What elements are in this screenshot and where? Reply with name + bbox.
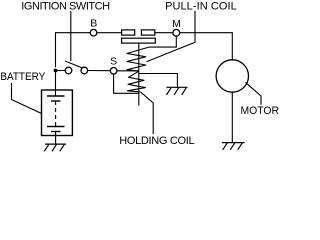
wire motor to ground <box>231 92 233 142</box>
svg-text:PULL-IN COIL: PULL-IN COIL <box>165 1 237 13</box>
ignition switch contact left <box>65 67 72 74</box>
pull-in coil L1 <box>127 47 149 71</box>
leader line battery <box>12 83 42 114</box>
wire terminal M to pull-in coil <box>149 36 176 47</box>
svg-text:MOTOR: MOTOR <box>241 105 280 117</box>
fixed contact 2 <box>141 30 154 35</box>
battery cell plate short top <box>51 100 61 102</box>
battery cell plate long bottom <box>47 126 65 128</box>
wire terminal S to coil junction <box>117 70 139 72</box>
wire battery to ground <box>55 132 57 145</box>
terminal M <box>173 29 180 36</box>
plunger rod <box>138 43 140 106</box>
leader line motor <box>246 82 262 104</box>
terminal B <box>90 29 97 36</box>
node junction battery/switch <box>54 69 58 73</box>
leader line ignition switch <box>70 11 72 61</box>
wire coil junction to ground <box>139 74 178 88</box>
svg-text:IGNITION SWITCH: IGNITION SWITCH <box>21 1 110 13</box>
fixed contact 1 <box>122 30 135 35</box>
moving contact plate <box>122 38 156 43</box>
battery box <box>42 90 73 136</box>
battery cell plate short bottom <box>51 131 61 133</box>
terminal S <box>110 68 117 75</box>
holding coil L2 <box>128 71 146 92</box>
motor M1 <box>216 60 248 92</box>
battery cell plate long top <box>47 95 65 97</box>
svg-text:BATTERY: BATTERY <box>0 71 45 83</box>
ignition switch contact right <box>81 67 88 74</box>
ground motor <box>222 143 245 150</box>
battery dashed middle link <box>55 101 57 127</box>
leader line holding coil <box>141 92 154 134</box>
wire terminal M to motor <box>180 33 233 60</box>
svg-text:B: B <box>90 17 97 29</box>
wire ignition switch to terminal S <box>88 70 111 72</box>
wire junction to ignition switch <box>56 70 66 72</box>
wire junction down to battery <box>55 71 57 97</box>
ground solenoid <box>166 87 187 95</box>
wire fixed contact 2 to terminal M <box>155 32 173 34</box>
ground battery <box>44 144 66 151</box>
wire terminal S down to holding coil bottom <box>114 74 139 93</box>
wire top bus from corner to terminal B <box>56 33 91 67</box>
svg-text:HOLDING COIL: HOLDING COIL <box>119 135 194 147</box>
wire terminal B to fixed contact 1 <box>97 32 122 34</box>
ignition switch lever <box>65 61 84 69</box>
svg-text:S: S <box>110 55 117 67</box>
leader line pull-in coil <box>147 11 196 62</box>
svg-text:M: M <box>172 18 181 30</box>
